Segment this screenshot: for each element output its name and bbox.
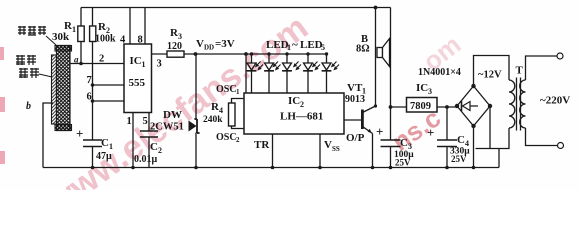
svg-text:7: 7 (87, 75, 92, 86)
svg-text:OSC: OSC (216, 132, 237, 143)
svg-text:IC: IC (416, 82, 428, 94)
svg-text:+: + (376, 124, 383, 139)
svg-text:VT: VT (347, 82, 363, 94)
svg-text:LH—681: LH—681 (280, 111, 323, 123)
svg-text:a: a (74, 55, 79, 65)
svg-text:2: 2 (158, 146, 162, 155)
svg-text:5: 5 (143, 116, 148, 127)
svg-text:555: 555 (129, 77, 146, 89)
svg-text:1: 1 (109, 142, 113, 151)
svg-text:T: T (516, 65, 524, 77)
svg-text:C: C (101, 137, 109, 149)
svg-text:IC: IC (288, 95, 300, 107)
svg-text:b: b (26, 101, 31, 112)
svg-text:3: 3 (428, 87, 432, 96)
svg-text:+: + (427, 125, 434, 140)
svg-text:1: 1 (287, 43, 291, 52)
svg-text:47μ: 47μ (96, 151, 112, 162)
svg-text:+: + (76, 126, 83, 141)
svg-text:1: 1 (142, 60, 146, 69)
svg-text:1: 1 (127, 116, 132, 127)
svg-text:100k: 100k (95, 34, 116, 45)
svg-text:30k: 30k (52, 31, 70, 43)
svg-text:240k: 240k (203, 115, 223, 125)
svg-text:3: 3 (178, 32, 182, 41)
svg-text:8Ω: 8Ω (356, 44, 370, 55)
svg-text:4: 4 (120, 35, 126, 46)
svg-text:SS: SS (332, 145, 340, 153)
svg-text:C: C (400, 137, 408, 149)
svg-text:O/P: O/P (346, 132, 365, 144)
svg-text:~: ~ (292, 39, 298, 51)
svg-text:TR: TR (254, 139, 270, 151)
svg-text:0.01μ: 0.01μ (134, 154, 158, 165)
svg-text:25V: 25V (395, 158, 411, 168)
svg-text:8: 8 (138, 35, 143, 46)
svg-text:1: 1 (72, 25, 76, 34)
svg-text:IC: IC (130, 55, 142, 67)
svg-text:2: 2 (236, 136, 240, 144)
svg-text:LED: LED (300, 39, 323, 51)
svg-text:2: 2 (300, 100, 304, 109)
svg-text:3: 3 (157, 59, 162, 70)
svg-text:DD: DD (204, 44, 214, 52)
svg-text:5: 5 (321, 43, 325, 52)
svg-text:~220V: ~220V (540, 95, 570, 107)
svg-text:7809: 7809 (410, 101, 431, 112)
svg-text:~12V: ~12V (478, 70, 502, 81)
svg-text:C: C (457, 134, 465, 146)
svg-text:25V: 25V (451, 154, 467, 164)
svg-text:=3V: =3V (215, 38, 235, 50)
svg-text:6: 6 (87, 92, 92, 103)
svg-text:C: C (150, 141, 158, 153)
svg-text:120: 120 (167, 41, 182, 52)
svg-text:V: V (196, 38, 204, 50)
svg-text:1: 1 (236, 88, 240, 96)
svg-text:4: 4 (219, 106, 223, 115)
svg-text:9013: 9013 (345, 94, 365, 105)
svg-text:DW: DW (163, 109, 182, 121)
svg-text:LED: LED (266, 39, 289, 51)
svg-text:V: V (324, 139, 332, 151)
svg-text:1N4001×4: 1N4001×4 (418, 67, 461, 78)
svg-text:2CW51: 2CW51 (150, 122, 184, 133)
svg-text:2: 2 (99, 54, 104, 65)
svg-text:OSC: OSC (216, 84, 237, 95)
